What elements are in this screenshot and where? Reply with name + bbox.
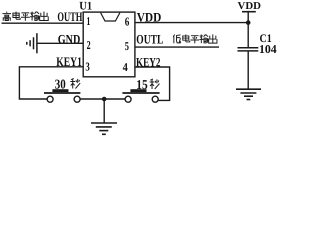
IC U1 top notch [101,13,120,21]
IC U1 body [83,12,135,77]
VDD power symbol [242,12,256,23]
wire junction down to ground [103,99,105,123]
svg-text:104: 104 [259,42,277,56]
label 15秒 [136,77,159,92]
wire pin 2 GND [37,42,83,44]
svg-text:2: 2 [87,38,91,52]
junction node (bottom rail / ground) [102,97,107,102]
svg-text:OUTH: OUTH [57,9,82,24]
wire pin 1 OUTH [2,22,84,24]
ground (right, below C1) [236,89,261,99]
ground (center bottom) [91,123,117,134]
svg-text:OUTL: OUTL [136,32,163,47]
capacitor C1 [238,48,259,51]
node label 高电平输出 (high-level output) [2,11,48,20]
wire capacitor C1 to ground [247,51,249,89]
wire pin 4 KEY2 down to button2 [135,67,170,100]
svg-text:30: 30 [55,77,66,92]
pushbutton S1 (30秒) [44,89,80,102]
svg-text:3: 3 [85,60,89,74]
label 30秒 [55,77,80,92]
svg-text:15: 15 [136,77,148,92]
junction node VDD rail [246,20,251,25]
svg-text:VDD: VDD [238,1,262,12]
node label 低电平输出 (low-level output) [173,34,217,43]
svg-text:5: 5 [125,39,129,53]
svg-text:GND: GND [58,31,81,46]
wire junction to button2 [104,98,125,100]
svg-text:6: 6 [125,15,130,29]
svg-text:1: 1 [86,14,90,28]
wire VDD rail to capacitor C1 [247,23,249,48]
wire pin 5 OUTL [135,46,219,48]
wire pin 6 to VDD rail [135,22,248,24]
wire button1 to junction [80,98,104,100]
wire pin 3 KEY1 down to button row [19,67,83,99]
svg-text:4: 4 [123,60,128,74]
ground (left horizontal, pin 2) [27,33,37,53]
pushbutton S2 (15秒) [122,89,159,102]
